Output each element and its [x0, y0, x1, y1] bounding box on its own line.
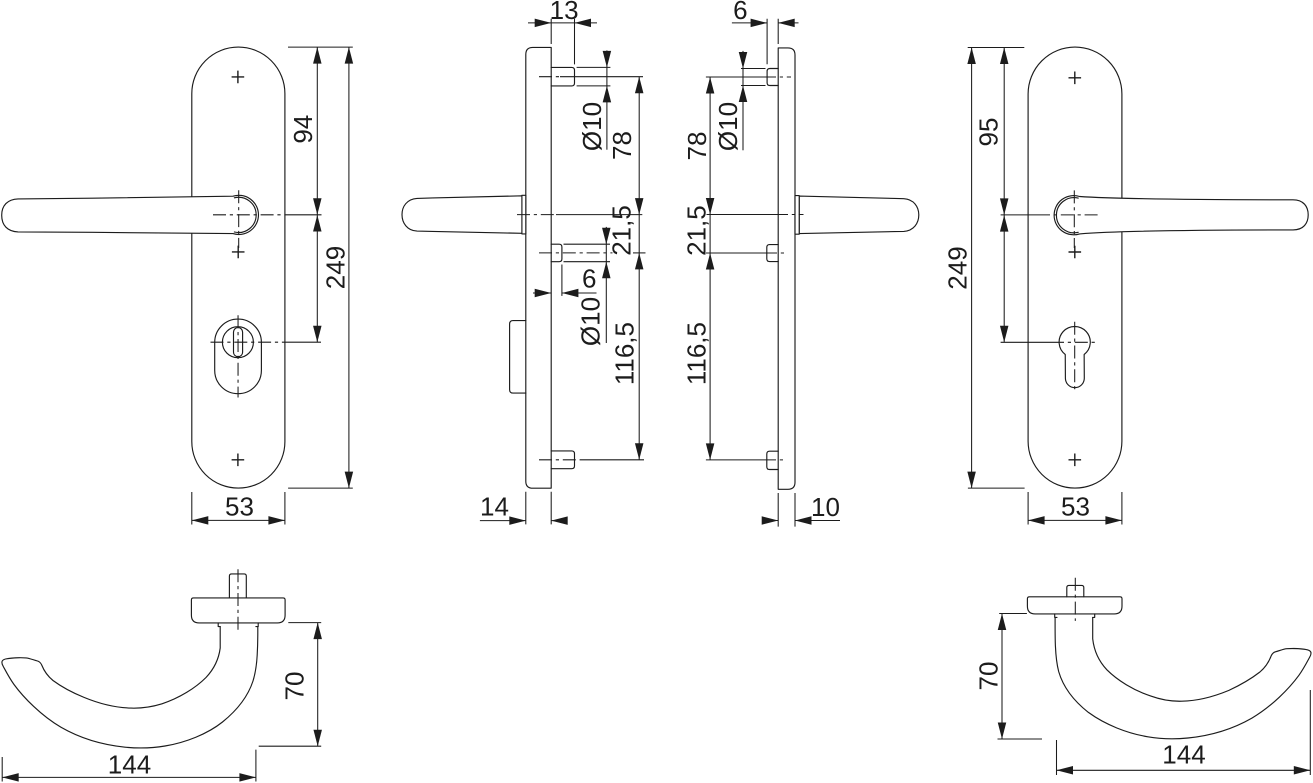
- view4 dimension line 95 and chain to cylinder: [1003, 48, 1005, 343]
- topview-right dimension 70 extension bottom: [998, 738, 1043, 740]
- topview-left spindle centerline: [237, 569, 239, 632]
- topview-right dimension 144 extension lines: [1057, 690, 1311, 775]
- view2 dimension line 6: [533, 292, 597, 294]
- svg-text:144: 144: [1162, 740, 1205, 770]
- view2 lever neck flange: [522, 195, 526, 234]
- view4 lever horizontal centerline: [1001, 214, 1037, 216]
- view4 dimension line 53: [1028, 519, 1122, 521]
- svg-text:21,5: 21,5: [681, 205, 711, 256]
- view1 bottom screw cross: [232, 454, 245, 467]
- view3 dimension 10 extension lines: [778, 493, 795, 527]
- view4 top screw cross: [1069, 72, 1082, 85]
- topview-left plate edge disc: [191, 598, 285, 623]
- view3 dimension 6 extension lines: [767, 19, 778, 64]
- view3 middle boss axis centerline: [706, 252, 764, 254]
- topview-right spindle: [1067, 585, 1084, 596]
- view1 lever handle: [2, 195, 259, 234]
- svg-text:116,5: 116,5: [682, 322, 712, 385]
- view2 top boss axis centerline: [539, 76, 560, 78]
- view2 dimension line 13: [528, 22, 597, 24]
- view3 dimension line 10: [762, 520, 840, 522]
- view3 dimension line Ø10: [742, 51, 744, 150]
- view3 top fixing boss: [767, 69, 778, 86]
- svg-text:6: 6: [733, 0, 747, 25]
- view1 lever vertical centerline: [238, 190, 240, 248]
- view1 dimension line 249: [348, 47, 350, 488]
- topview-right dimension 70 extension top: [999, 613, 1027, 615]
- view4 lever handle: [1054, 196, 1308, 235]
- view2 dimension Ø10 middle extension lines: [564, 244, 611, 262]
- topview-left neck flange: [218, 623, 258, 627]
- topview-right neck flange: [1055, 614, 1095, 618]
- view4 backplate (inside, PZ keyhole): [1028, 47, 1122, 488]
- svg-text:10: 10: [811, 492, 840, 522]
- view1 cylinder key slot: [234, 328, 243, 357]
- view2 dimension line Ø10 top: [606, 50, 608, 149]
- view1 dimension line 53: [192, 519, 285, 521]
- view2 bottom fixing boss: [551, 451, 574, 469]
- view2 chain extension at middle boss axis: [633, 252, 646, 254]
- topview-left dimension 144 extension lines: [2, 750, 256, 782]
- view3 lever neck flange: [795, 196, 799, 235]
- topview-left dimension 70 extension bottom: [259, 745, 322, 747]
- topview-left spindle: [229, 574, 246, 598]
- view4 keyhole vertical centerline: [1074, 322, 1076, 392]
- view2 chain dimension line 78 / 21,5 / 116,5: [638, 77, 640, 460]
- view3 top boss axis centerline: [706, 76, 763, 78]
- view1 dimension line 94 and chain to cylinder: [316, 47, 318, 342]
- svg-text:Ø10: Ø10: [713, 102, 743, 151]
- view1 escutcheon vertical centerline: [237, 315, 239, 397]
- view1 top extension line: [288, 46, 353, 48]
- view2 dimension line 14: [480, 520, 568, 522]
- svg-text:6: 6: [582, 264, 596, 294]
- view3 dimension Ø10 extension lines: [741, 69, 766, 86]
- view1 backplate (outside, oval escutcheon): [192, 47, 285, 488]
- svg-text:95: 95: [973, 118, 1003, 147]
- view4 bottom screw cross: [1069, 454, 1082, 467]
- view1 dimension 53 extension lines: [192, 492, 285, 525]
- view3 chain dimension line 78 / 21,5 / 116,5: [709, 77, 711, 460]
- view2 lever axis centerline: [517, 214, 556, 216]
- topview-right lever grip: [1055, 617, 1311, 738]
- view1 security oval escutcheon: [215, 319, 262, 394]
- svg-text:Ø10: Ø10: [577, 102, 607, 151]
- view4 middle screw cross: [1069, 246, 1082, 259]
- svg-text:13: 13: [550, 0, 579, 25]
- topview-left dimension 70 extension top: [288, 622, 321, 624]
- view2 middle fixing boss: [551, 244, 562, 262]
- view3 bottom boss axis centerline: [706, 459, 763, 461]
- view2 dimension 6 extension line: [561, 265, 563, 296]
- view1 bottom extension line: [288, 487, 353, 489]
- svg-text:21,5: 21,5: [606, 205, 636, 256]
- view3 dimension line 6: [732, 22, 799, 24]
- view4 dimension line 249: [971, 48, 973, 489]
- topview-right dimension line 144: [1057, 769, 1311, 771]
- view3 lever side profile: [799, 196, 919, 234]
- topview-right plate edge disc: [1027, 597, 1122, 614]
- svg-text:53: 53: [225, 491, 254, 521]
- view1 top screw cross: [232, 71, 245, 84]
- view4 top extension line: [968, 47, 1025, 49]
- view4 rose circle (inner arc at lever end): [1056, 198, 1078, 233]
- view2 top fixing boss: [551, 67, 574, 86]
- view2 cylinder protection bump: [510, 321, 526, 394]
- view3 middle fixing boss: [767, 245, 778, 262]
- svg-text:Ø10: Ø10: [575, 297, 605, 346]
- topview-right spindle centerline: [1074, 578, 1076, 621]
- svg-text:78: 78: [607, 131, 637, 160]
- svg-text:249: 249: [320, 246, 350, 289]
- view4 PZ euro profile keyhole: [1059, 326, 1090, 387]
- svg-text:116,5: 116,5: [609, 322, 639, 385]
- svg-text:70: 70: [974, 662, 1004, 691]
- view4 dimension 53 extension lines: [1028, 492, 1122, 525]
- view2 dimension Ø10 top extension lines: [577, 67, 611, 86]
- svg-text:144: 144: [108, 749, 151, 779]
- view4 bottom extension line: [968, 487, 1025, 489]
- svg-text:94: 94: [288, 115, 318, 144]
- topview-left dimension line 144: [2, 776, 256, 778]
- view2 dimension 14 extension lines: [526, 492, 551, 525]
- view2 dimension line Ø10 middle: [605, 227, 607, 343]
- view1 lever horizontal centerline: [213, 214, 288, 216]
- view3 bottom fixing boss: [767, 451, 778, 469]
- topview-left dimension line 70: [317, 623, 319, 747]
- topview-left lever grip: [2, 627, 258, 748]
- view2 middle boss axis centerline: [539, 252, 613, 254]
- topview-right dimension line 70: [1001, 614, 1003, 740]
- svg-text:249: 249: [943, 246, 973, 289]
- view1 escutcheon horizontal centerline / extension: [211, 341, 286, 343]
- svg-text:70: 70: [280, 672, 310, 701]
- view4 keyhole horizontal centerline / extension: [1001, 341, 1051, 343]
- view2 bottom boss axis centerline: [539, 459, 582, 461]
- view4 lever vertical centerline: [1073, 190, 1075, 248]
- view1 cylinder circle: [222, 327, 253, 358]
- svg-text:53: 53: [1061, 491, 1090, 521]
- view2 plate side profile (outside): [526, 47, 551, 488]
- view2 lever side profile: [402, 196, 522, 234]
- view3 lever axis centerline: [707, 214, 776, 216]
- svg-text:78: 78: [682, 132, 712, 161]
- view1 rose circle (inner arc at lever end): [234, 197, 256, 232]
- view3 plate side profile (inside): [778, 48, 795, 489]
- view1 middle screw cross: [232, 246, 245, 259]
- view2 dimension 13 extension lines: [551, 19, 574, 65]
- svg-text:14: 14: [480, 491, 509, 521]
